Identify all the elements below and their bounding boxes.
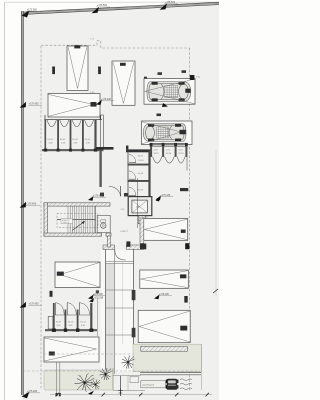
dark block ramp right 1 — [132, 290, 136, 300]
right tick — [213, 289, 218, 293]
cell labels — [56, 322, 86, 328]
lobby-ramp wall — [107, 236, 110, 247]
boundary arrow left y305 — [20, 302, 43, 308]
car B — [143, 124, 186, 142]
svg-text:90.20: 90.20 — [104, 149, 110, 151]
svg-text:KL.10: KL.10 — [68, 322, 74, 324]
room door arc 3 — [129, 194, 136, 196]
svg-text:KL.05: KL.05 — [138, 156, 144, 158]
ramp entry wall vertical — [119, 376, 121, 396]
tree 2 — [91, 380, 101, 390]
parking space P1 (vertical) — [67, 45, 88, 90]
stair treads upper flight — [68, 206, 94, 219]
bottom dimension line — [50, 393, 212, 397]
dashed drive centerline — [44, 353, 190, 355]
car at entrance (rear view) — [166, 379, 179, 390]
lobby door — [109, 186, 129, 197]
rooms left wall — [127, 152, 129, 196]
tree 4 — [122, 356, 135, 369]
door leaf+arc cell1 — [55, 303, 57, 316]
elevator car — [132, 200, 148, 213]
sump room right of stairs — [97, 215, 110, 232]
svg-text:90.20: 90.20 — [179, 153, 185, 155]
svg-text:+175.456: +175.456 — [26, 203, 37, 206]
right parking R2 — [140, 270, 189, 288]
black column square top-right of car A — [190, 75, 195, 80]
ramp top wall left piece — [103, 245, 115, 249]
car space B (horizontal) — [142, 121, 193, 145]
hydrant symbol — [118, 389, 123, 396]
room door arc 2 — [129, 178, 136, 180]
bottom wall double line right — [140, 373, 201, 375]
annotation squiggles — [180, 379, 192, 390]
drawing frame left — [4, 2, 6, 400]
site area background — [22, 3, 219, 400]
entrance ramp box — [130, 377, 165, 388]
elevation flag above bottom bank — [89, 297, 104, 302]
elevation flag above stairs — [88, 195, 106, 200]
flag below car A — [162, 103, 168, 107]
ramp corridor — [101, 249, 134, 374]
svg-text:+175.480: +175.480 — [27, 390, 38, 393]
ramp right line — [133, 249, 135, 344]
svg-text:KL.09: KL.09 — [56, 322, 62, 324]
dashed landing outline — [57, 214, 98, 228]
tree 3 — [100, 368, 112, 380]
right parking R3 — [138, 310, 190, 342]
car A — [147, 82, 191, 102]
svg-text:10.20: 10.20 — [138, 160, 144, 162]
sump circle — [101, 223, 106, 228]
svg-text:KL.02: KL.02 — [60, 139, 66, 141]
room divider 1 — [128, 164, 149, 166]
boundary arrow bottom-left — [22, 390, 41, 398]
parking space P2 (vertical) — [112, 61, 135, 105]
cell wall top stubs — [150, 143, 153, 147]
elevation flag left mid — [88, 294, 106, 299]
elevation flag near C — [96, 99, 114, 105]
room divider 2 — [128, 180, 149, 182]
cell walls — [150, 146, 152, 157]
svg-text:+175.455: +175.455 — [29, 103, 40, 106]
arrow right of elevator — [156, 197, 161, 202]
stair mid rail — [57, 219, 96, 221]
parking space C (horizontal, left) — [48, 94, 100, 118]
svg-text:90.20: 90.20 — [166, 153, 172, 155]
door arc cell3 — [177, 157, 185, 163]
small rooms column right of corridor — [128, 151, 151, 197]
black column below R1 — [185, 243, 189, 249]
ramp cross line 4 — [106, 307, 134, 309]
left wall — [44, 203, 48, 236]
elevator centerline — [137, 178, 139, 228]
right wall of bottom bank area — [97, 298, 99, 336]
hatched wall left of R1 — [140, 218, 144, 244]
tree 1 — [75, 373, 95, 392]
svg-text:KORYT.: KORYT. — [121, 231, 129, 233]
pier below D — [50, 291, 53, 297]
door leaf+arc cell3 — [78, 303, 80, 316]
ramp top wall right piece — [126, 245, 143, 249]
ramp corridor floor — [101, 249, 134, 372]
dark block below hatched wall — [140, 244, 146, 250]
stub below elevator — [138, 216, 145, 224]
pier column x53 — [52, 67, 55, 75]
pier column x99 — [98, 67, 101, 75]
boundary arrow top mid — [92, 4, 111, 13]
landscape planter bottom-left — [44, 370, 113, 390]
boundary arrow left y105 — [20, 102, 43, 108]
dashed building outline top — [41, 41, 190, 48]
boundary line left (vertical) — [21, 11, 23, 395]
car space A cross lines — [144, 77, 195, 104]
left pier — [48, 317, 53, 330]
svg-text:KL.04: KL.04 — [85, 139, 91, 141]
ramp band right line — [114, 249, 116, 374]
middle wall dark segment — [126, 149, 151, 152]
thick wall stub right of bank bottom — [96, 147, 114, 150]
right landscape edge — [200, 344, 202, 390]
boundary corner arrow top-left — [22, 9, 41, 18]
svg-text:+175.455: +175.455 — [29, 303, 40, 306]
right pier wall of bank — [101, 115, 104, 149]
svg-text:KL.03: KL.03 — [72, 139, 78, 141]
dashed building outline right — [189, 48, 191, 392]
svg-text:KL.01: KL.01 — [48, 139, 54, 141]
bank bottom wall — [45, 329, 97, 331]
svg-text:+175.500: +175.500 — [165, 1, 176, 4]
page background — [0, 0, 219, 400]
stairwell — [44, 203, 111, 236]
room labels — [138, 156, 144, 192]
ramp cross line 5 — [106, 334, 134, 336]
ramp entry inner vertical — [127, 376, 129, 391]
door leaf+arc cell2 — [66, 303, 68, 316]
parking space D (horizontal left) — [55, 262, 100, 288]
cell labels — [48, 139, 91, 145]
storage bank right — [150, 143, 188, 171]
ramp entry bottom line — [113, 389, 145, 391]
bank bottom wall — [42, 149, 104, 151]
bottom wall — [44, 233, 102, 236]
tick above car B — [157, 114, 162, 117]
cell walls — [53, 303, 55, 329]
boundary line top (sloped) — [21, 2, 219, 14]
door arc cell2 — [165, 157, 175, 163]
door arc cell1 — [47, 120, 56, 127]
tick above car A — [158, 72, 163, 75]
pier above ramp wall — [126, 241, 130, 246]
door arc cell4 — [85, 120, 94, 127]
room door arc 1 — [129, 162, 136, 164]
hatched retaining wall below R3 — [141, 346, 188, 351]
door arc cell2 — [60, 120, 69, 127]
pier below R2 — [184, 296, 187, 303]
top wall — [44, 203, 110, 206]
parking space E (bottom left) — [44, 337, 99, 362]
svg-text:KL.06: KL.06 — [138, 173, 144, 175]
ramp left line — [105, 249, 107, 374]
tick above car A 2 — [182, 70, 187, 73]
boundary arrow left y205 — [20, 202, 41, 208]
dim arrow below planter — [88, 391, 94, 395]
elevation flag right corridor — [156, 195, 174, 200]
boundary arrow top right — [160, 1, 179, 10]
door foot left — [100, 193, 104, 197]
stair direction arrow — [72, 222, 85, 231]
stair right wall line — [95, 206, 97, 233]
bank top line — [44, 119, 102, 121]
ramp door arc — [115, 250, 126, 260]
ramp inner thin line — [122, 262, 124, 344]
stair treads lower flight — [68, 220, 94, 233]
svg-text:wjazd/wyjazd: wjazd/wyjazd — [142, 384, 154, 386]
ramp entry top line — [113, 375, 141, 377]
svg-text:+175.500: +175.500 — [97, 4, 108, 7]
svg-text:90.20: 90.20 — [154, 153, 160, 155]
landscape area right — [133, 344, 202, 372]
cell top lines — [55, 314, 64, 316]
bank top wall — [150, 142, 187, 144]
door arc cell3 — [72, 120, 81, 127]
svg-text:KL.07: KL.07 — [138, 189, 144, 191]
wall stub on right dashed line — [180, 188, 188, 191]
cell labels — [154, 149, 185, 155]
right parking R1 — [144, 219, 188, 241]
ramp cross line 3 — [106, 289, 134, 291]
right thin boundary line — [215, 150, 217, 296]
car space B cross lines — [142, 122, 186, 144]
svg-text:KL.11: KL.11 — [81, 322, 87, 324]
planter right edge line — [112, 368, 114, 391]
svg-text:+175.298: +175.298 — [94, 297, 104, 299]
elevation flag between R2 R3 — [154, 294, 172, 299]
dark block ramp right 2 — [132, 328, 136, 338]
svg-text:17x17.6: 17x17.6 — [63, 222, 69, 224]
outer right wall — [148, 151, 150, 197]
ramp sidewalk band — [106, 264, 115, 373]
drawing frame top — [5, 1, 220, 3]
elevator shaft — [128, 197, 152, 216]
ramp cross line 1 — [106, 260, 134, 262]
corridor left wall — [99, 151, 101, 187]
cell walls — [45, 120, 47, 150]
stair label box — [61, 219, 73, 224]
door arc cell1 — [153, 157, 162, 163]
storage bank top-left — [42, 115, 104, 152]
ramp cross line 2 — [106, 262, 134, 264]
car space A (horizontal) — [144, 79, 195, 105]
dashed building outline left — [40, 46, 42, 390]
dashed line bottom — [23, 370, 200, 372]
planter posts — [56, 362, 58, 396]
storage bank bottom-left — [45, 303, 97, 332]
